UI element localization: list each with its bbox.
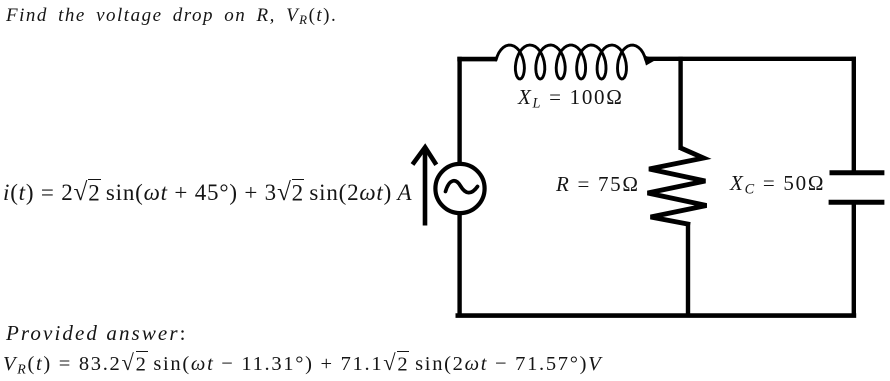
current source sine symbol (446, 181, 478, 193)
value label XC = 50 ohm (730, 173, 825, 194)
label: problem statement "Find the voltage drop on R, V_R(t)." (6, 6, 337, 25)
wire: left rail lower (source circle to bottom wire) (457, 212, 461, 318)
label: answer equation V_R(t) (3, 354, 602, 375)
wire: right rail upper (top wire to capacitor) (852, 57, 856, 172)
current direction arrow head (413, 147, 437, 165)
resistor R (hand-drawn zigzag) (648, 148, 707, 225)
current direction arrow shaft (423, 151, 428, 226)
inductor L1 (hand-drawn coil) (496, 45, 646, 79)
wire: middle branch from resistor down to bottom rail (686, 224, 690, 318)
label: source current equation i(t) (3, 181, 412, 204)
value label XL = 100 ohm (518, 87, 624, 108)
wire: top horizontal segment (inductor to right rail) (645, 57, 856, 61)
inductor end arrowhead (643, 55, 657, 66)
wire: top-left horizontal segment (source to inductor) (457, 57, 497, 62)
capacitor C1 top plate (830, 170, 885, 175)
wire: right rail lower (capacitor to bottom rail) (852, 203, 856, 318)
wire: left rail upper (top wire down to source circle) (457, 57, 461, 165)
value label R = 75 ohm (556, 174, 640, 195)
current source I1 (circle) (435, 164, 484, 213)
wire: bottom horizontal rail (456, 313, 857, 318)
label: "Provided answer:" (6, 323, 188, 344)
wire: middle branch from top wire down to resistor (678, 57, 682, 150)
capacitor C1 bottom plate (829, 200, 885, 205)
